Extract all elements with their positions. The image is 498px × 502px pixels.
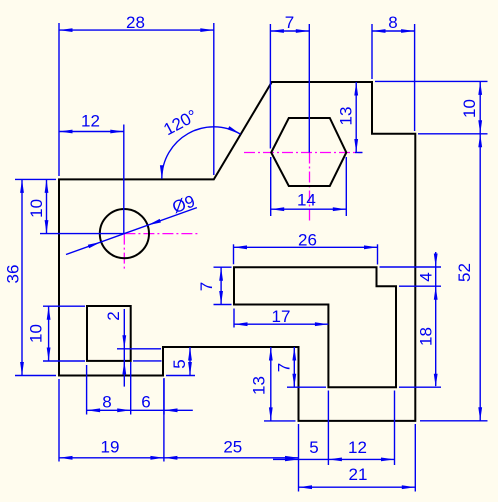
hole circle	[100, 209, 149, 258]
dimension 8 bottom	[87, 362, 131, 415]
dimension 4	[380, 252, 442, 386]
centerline hex vertical	[309, 153, 311, 222]
dimension 12 bottom	[328, 391, 394, 466]
dimension 10 top right	[375, 81, 488, 133]
dimension 7 top	[270, 13, 309, 153]
dimension 12	[59, 112, 124, 234]
svg-text:52: 52	[455, 263, 474, 282]
dimension 19	[59, 379, 164, 462]
dimension 14 hexagon	[271, 157, 347, 216]
dimension 18	[399, 327, 441, 387]
dimension 5 bottom	[273, 391, 328, 492]
svg-text:13: 13	[337, 107, 356, 126]
dimension 25	[164, 438, 299, 460]
dimension 8 top	[372, 13, 415, 131]
dimension 10 lower left	[26, 306, 85, 361]
svg-text:120°: 120°	[160, 106, 200, 139]
dimension 17	[234, 307, 328, 328]
L-shaped cutout	[234, 267, 396, 387]
svg-text:4: 4	[417, 272, 436, 281]
dimension 13 hexagon	[337, 82, 363, 153]
dimension 52 right	[420, 134, 488, 421]
dimension 7 cutout	[197, 267, 232, 304]
svg-text:7: 7	[197, 282, 216, 291]
dimension 7 bottom middle	[275, 347, 327, 387]
svg-text:7: 7	[285, 13, 294, 32]
dimension 26	[234, 231, 378, 265]
rectangular hole	[87, 306, 131, 361]
hexagon pocket	[271, 118, 346, 186]
svg-text:14: 14	[297, 191, 316, 210]
dimension 21	[299, 424, 416, 492]
svg-text:10: 10	[27, 199, 46, 218]
dimension 2	[104, 309, 162, 387]
part outer outline	[59, 82, 415, 421]
dimension 36	[4, 179, 56, 375]
svg-text:Ø9: Ø9	[170, 192, 198, 218]
svg-text:10: 10	[460, 99, 479, 118]
svg-text:7: 7	[275, 363, 294, 372]
svg-text:19: 19	[101, 438, 120, 457]
svg-text:10: 10	[26, 324, 45, 343]
centerline hex horizontal	[244, 152, 362, 154]
dimension 5 step	[166, 347, 195, 376]
svg-text:6: 6	[141, 393, 150, 412]
dimension diameter 9	[66, 192, 198, 255]
dimension 120 degrees	[160, 106, 241, 179]
svg-text:28: 28	[126, 13, 145, 32]
svg-text:2: 2	[104, 311, 123, 320]
svg-text:5: 5	[170, 359, 189, 368]
svg-text:8: 8	[102, 393, 111, 412]
svg-text:12: 12	[81, 112, 100, 131]
svg-text:36: 36	[4, 265, 23, 284]
svg-text:25: 25	[223, 438, 242, 457]
svg-text:12: 12	[348, 438, 367, 457]
svg-text:17: 17	[272, 307, 291, 326]
centerline hole vertical	[123, 234, 125, 270]
centerline hole horizontal	[124, 233, 200, 235]
svg-text:18: 18	[417, 327, 436, 346]
dimension 6 bottom	[131, 378, 193, 415]
dimension 10 upper left	[27, 179, 124, 233]
svg-text:8: 8	[388, 13, 397, 32]
svg-text:5: 5	[309, 438, 318, 457]
dimension 13 bottom middle	[250, 347, 296, 421]
svg-text:13: 13	[250, 376, 269, 395]
dimension 28 top	[59, 13, 214, 176]
svg-text:26: 26	[298, 231, 317, 250]
svg-text:21: 21	[349, 465, 368, 484]
